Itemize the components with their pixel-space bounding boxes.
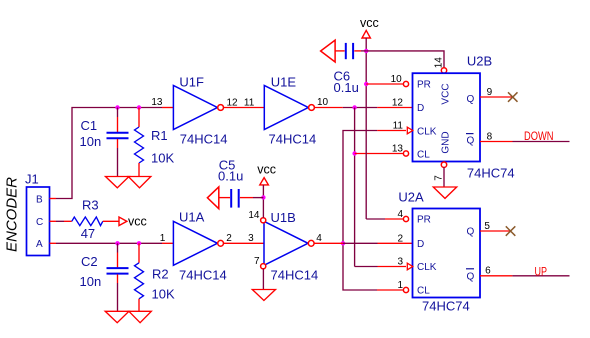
flip-flop U2B 74HC74	[391, 53, 515, 180]
node junction C6 tap	[364, 49, 368, 53]
svg-text:C2: C2	[81, 254, 98, 269]
resistor R2	[135, 243, 175, 311]
pin 7 power pin of U1B	[261, 264, 266, 269]
resistor R3	[56, 198, 119, 242]
svg-text:7: 7	[254, 256, 260, 267]
wire vcc to U2B pin14	[366, 51, 444, 68]
svg-text:74HC14: 74HC14	[179, 267, 227, 282]
svg-text:CL: CL	[417, 286, 430, 297]
svg-text:4: 4	[397, 209, 403, 220]
svg-text:10: 10	[391, 74, 403, 85]
wire vcc to U1B pin14	[262, 185, 264, 218]
svg-text:PR: PR	[417, 215, 431, 226]
svg-text:10n: 10n	[80, 134, 102, 149]
wire U2B CL stub pin13	[355, 153, 403, 155]
wire U2B CLK stub pin11	[377, 130, 406, 132]
svg-text:VCC: VCC	[441, 83, 452, 104]
svg-text:3: 3	[248, 233, 254, 244]
svg-text:Q: Q	[467, 94, 475, 105]
svg-text:ENCODER: ENCODER	[4, 177, 21, 252]
resistor R1	[135, 108, 175, 177]
wire U2B PR stub pin10	[366, 83, 403, 85]
wire U2A Q stub pin5	[480, 230, 511, 232]
wire vertical net A-signal (to U2B CLK and U2A CL)	[343, 131, 377, 291]
svg-text:C1: C1	[81, 118, 98, 133]
wire U1A out to U1B in	[224, 242, 265, 244]
wire U2B Q stub pin9	[480, 96, 513, 98]
svg-text:UP: UP	[535, 267, 548, 279]
pin 14 power pin of U1B	[261, 218, 266, 223]
ground under C2	[105, 311, 129, 322]
ground under U1B	[252, 290, 275, 301]
flip-flop U2A 74HC74	[397, 189, 491, 313]
svg-text:11: 11	[244, 98, 255, 109]
wire U2B Qbar pin8 DOWN	[480, 141, 513, 143]
node junction R1 top	[137, 105, 141, 109]
svg-text:10: 10	[317, 97, 329, 108]
svg-text:vcc: vcc	[360, 16, 379, 30]
wire B channel from J1 to U1F	[56, 108, 162, 199]
svg-text:12: 12	[392, 98, 404, 109]
pin 14 power pin of U2B	[441, 68, 446, 73]
wire U1B pin7 to ground	[262, 269, 264, 290]
svg-text:R3: R3	[82, 198, 99, 213]
svg-text:4: 4	[316, 233, 322, 244]
wire U1B output to U2A D	[314, 242, 343, 244]
svg-text:Q: Q	[467, 271, 475, 282]
no-connect X on U2B Q	[508, 92, 518, 102]
capacitor C6	[321, 40, 367, 95]
svg-text:A: A	[36, 239, 43, 250]
wire A channel from J1 to U1A	[56, 242, 162, 244]
node junction C1 top	[115, 105, 119, 109]
node junction R2 top	[137, 241, 141, 245]
ground under C1	[106, 177, 130, 188]
node junction B-signal	[352, 105, 356, 109]
wire vcc vertical net to U2B PR and U2A PR	[365, 38, 367, 219]
svg-text:CLK: CLK	[417, 127, 437, 138]
op-amp U1B (inverter 74HC14)	[248, 210, 322, 282]
svg-text:10n: 10n	[80, 274, 102, 289]
wire U2B pin7 to ground	[443, 167, 445, 187]
svg-text:U1F: U1F	[179, 75, 204, 90]
svg-text:2: 2	[397, 233, 403, 244]
svg-text:Q: Q	[467, 135, 475, 146]
svg-text:13: 13	[392, 144, 404, 155]
pin 7 power pin of U2B	[441, 162, 446, 167]
svg-text:Q: Q	[467, 227, 475, 238]
svg-text:74HC74: 74HC74	[422, 299, 470, 314]
wire U2A Qbar pin6 UP	[480, 275, 512, 277]
svg-text:PR: PR	[417, 80, 431, 91]
svg-text:74HC14: 74HC14	[271, 267, 319, 282]
ground under U2B	[433, 187, 456, 198]
svg-text:CLK: CLK	[417, 262, 437, 273]
svg-text:B: B	[36, 194, 43, 205]
node junction A-signal at row2	[341, 241, 345, 245]
svg-text:GND: GND	[441, 131, 452, 153]
svg-text:C: C	[36, 217, 43, 228]
svg-text:2: 2	[226, 233, 232, 244]
capacitor C5	[207, 157, 263, 208]
wire U1A input stub	[162, 242, 173, 244]
wire U2A PR from vcc net pin4	[366, 218, 385, 220]
svg-text:11: 11	[393, 121, 404, 132]
op-amp U1E (inverter 74HC14)	[244, 75, 329, 147]
svg-text:7: 7	[434, 175, 445, 181]
svg-text:U1B: U1B	[271, 210, 296, 225]
svg-text:10K: 10K	[152, 286, 175, 301]
svg-text:U1A: U1A	[179, 210, 205, 225]
svg-text:3: 3	[397, 257, 403, 268]
wire U1E output to U2B D	[314, 107, 342, 109]
connector J1	[25, 172, 56, 256]
svg-text:U2B: U2B	[467, 53, 492, 68]
wire U2A CL stub pin1	[377, 289, 403, 291]
ground under R2	[129, 311, 151, 322]
svg-text:D: D	[417, 103, 424, 114]
op-amp U1A (inverter 74HC14)	[160, 210, 233, 283]
svg-text:10K: 10K	[151, 151, 174, 166]
capacitor C1	[80, 108, 129, 177]
svg-text:14: 14	[248, 210, 260, 221]
svg-text:J1: J1	[25, 172, 39, 187]
wire U1F input stub	[162, 107, 173, 109]
svg-text:0.1u: 0.1u	[218, 169, 243, 184]
svg-text:vcc: vcc	[257, 162, 276, 176]
ground under R1	[128, 177, 151, 188]
wire U1F out to U1E in	[224, 107, 265, 109]
svg-text:D: D	[417, 239, 424, 250]
svg-text:U1E: U1E	[271, 75, 297, 90]
svg-text:8: 8	[487, 131, 493, 142]
svg-text:74HC14: 74HC14	[269, 132, 317, 147]
op-amp U1F (inverter 74HC14)	[151, 75, 238, 147]
svg-text:74HC74: 74HC74	[467, 166, 515, 181]
svg-text:CL: CL	[417, 150, 430, 161]
node junction U2B PR tap	[364, 82, 368, 86]
capacitor C2	[80, 243, 129, 311]
svg-text:6: 6	[485, 265, 491, 276]
svg-text:DOWN: DOWN	[524, 131, 554, 143]
svg-text:R1: R1	[151, 128, 168, 143]
svg-text:vcc: vcc	[128, 214, 147, 228]
svg-text:14: 14	[434, 57, 445, 69]
svg-text:0.1u: 0.1u	[334, 80, 359, 95]
node junction C5 tap	[261, 195, 265, 199]
svg-text:1: 1	[160, 233, 166, 244]
no-connect X on U2A Q	[506, 226, 516, 236]
node junction C2 top	[115, 241, 119, 245]
svg-text:U2A: U2A	[398, 189, 424, 204]
svg-text:74HC14: 74HC14	[180, 132, 228, 147]
wire to U2A CLK pin3	[355, 266, 378, 268]
power vcc arrow at R3	[119, 217, 127, 226]
svg-text:R2: R2	[152, 267, 169, 282]
svg-text:13: 13	[151, 97, 163, 108]
svg-text:47: 47	[81, 226, 95, 241]
node junction U2B CL tap	[352, 151, 356, 155]
wire vertical net B-signal (to U2B CL and U2A CLK)	[354, 108, 356, 267]
svg-text:1: 1	[397, 280, 403, 291]
